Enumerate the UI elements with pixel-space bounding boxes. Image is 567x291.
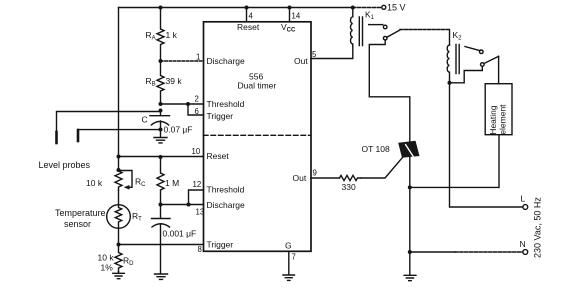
svg-text:RD: RD	[123, 256, 134, 268]
ground below triac	[404, 252, 416, 281]
svg-text:G: G	[285, 241, 292, 251]
wire probe1 to node	[57, 110, 161, 133]
svg-text:15 V: 15 V	[387, 2, 406, 12]
node junction N	[408, 250, 412, 254]
resistor 1M	[157, 157, 164, 205]
svg-text:Heating: Heating	[488, 105, 498, 135]
wire pin6 trigger bracket	[188, 104, 204, 115]
node junction reset left	[117, 155, 121, 159]
svg-text:0.07 μF: 0.07 μF	[164, 125, 193, 135]
node junction K1 coil top	[351, 6, 355, 10]
wire K2 blade to heater	[498, 56, 500, 83]
wire heater bottom to triac node	[410, 135, 499, 188]
level probe 2	[77, 130, 80, 141]
svg-text:Discharge: Discharge	[207, 56, 246, 66]
ground below pin7	[283, 275, 295, 280]
node junction threshold	[159, 102, 163, 106]
svg-text:9: 9	[313, 169, 317, 178]
svg-text:4: 4	[249, 12, 254, 21]
svg-text:1 M: 1 M	[165, 178, 179, 188]
wire out pin5	[311, 46, 353, 59]
level probe 1	[55, 132, 58, 143]
svg-text:RC: RC	[135, 177, 146, 189]
svg-text:element: element	[497, 104, 507, 135]
thermistor RT zigzag	[115, 190, 121, 228]
capacitor C curved plate	[151, 121, 168, 130]
node junction pin4	[245, 6, 249, 10]
terminal L	[523, 205, 528, 210]
triac OT108 body	[398, 141, 419, 158]
svg-text:10 k: 10 k	[86, 178, 103, 188]
wire pin2 threshold	[161, 103, 204, 105]
capacitor 0.001uF curved plate	[152, 224, 170, 274]
svg-text:N: N	[520, 239, 526, 249]
svg-text:0.001 μF: 0.001 μF	[163, 229, 197, 239]
wire pin12 threshold bracket	[189, 190, 204, 205]
wire K1 common down to triac	[369, 40, 410, 141]
wire K2 node down to L	[450, 83, 523, 207]
svg-text:sensor: sensor	[64, 219, 91, 229]
relay K2 lower contact	[481, 63, 485, 67]
svg-text:OT 108: OT 108	[362, 144, 390, 154]
wire K2 common to coil bottom node	[450, 67, 483, 83]
relay K2 upper contact	[465, 47, 480, 51]
svg-text:12: 12	[193, 180, 202, 189]
svg-text:330: 330	[342, 182, 356, 192]
node junction pin14	[288, 6, 292, 10]
node junction cap bottom	[159, 128, 163, 132]
wire reset pin10	[119, 156, 204, 158]
relay K2 core	[456, 45, 459, 74]
svg-text:RT: RT	[132, 211, 142, 223]
svg-text:6: 6	[195, 107, 199, 116]
ground below 0.001uF	[155, 274, 168, 279]
pin7 stub	[288, 251, 290, 274]
svg-text:Discharge: Discharge	[207, 200, 246, 210]
svg-text:10: 10	[192, 147, 201, 156]
pin14 stub	[289, 8, 291, 22]
svg-text:Trigger: Trigger	[207, 111, 234, 121]
relay K1 coil	[351, 8, 353, 46]
wire K1 to K2 (dashed)	[400, 29, 450, 31]
relay K1 core	[359, 17, 362, 46]
resistor RB 39k	[157, 61, 164, 104]
svg-text:Out: Out	[294, 56, 308, 66]
svg-text:Trigger: Trigger	[207, 240, 234, 250]
node junction trigger left	[117, 243, 121, 247]
svg-text:Level probes: Level probes	[39, 160, 91, 170]
node junction probe1	[159, 109, 163, 113]
svg-text:230 Vac, 50 Hz: 230 Vac, 50 Hz	[533, 197, 543, 258]
label Heating element (vertical)	[488, 104, 508, 135]
svg-text:14: 14	[292, 12, 301, 21]
wire triac to bottom node	[409, 158, 411, 253]
wire pin1 discharge (dashed)	[161, 60, 204, 62]
svg-text:VCC: VCC	[281, 22, 296, 34]
capacitor C 0.07uF top plate	[150, 111, 170, 116]
wire trigger pin8	[119, 228, 204, 244]
ground below C	[154, 130, 167, 143]
svg-text:Reset: Reset	[237, 22, 260, 32]
relay K1 blade	[387, 30, 400, 37]
heating element box	[485, 84, 512, 135]
relay K1 lower contact	[383, 36, 387, 40]
relay K2 blade	[484, 56, 499, 63]
wire left vertical column	[118, 8, 120, 158]
thermistor RT circle	[107, 205, 131, 229]
pin4 stub	[246, 8, 248, 22]
svg-text:Reset: Reset	[207, 151, 230, 161]
wire pin13 discharge	[161, 204, 204, 206]
node junction triac bottom	[408, 185, 412, 189]
svg-text:39 k: 39 k	[166, 76, 183, 86]
node junction pin1	[159, 59, 163, 63]
resistor RD 10k 1%	[115, 245, 122, 272]
svg-text:1 k: 1 k	[166, 30, 178, 40]
svg-text:Temperature: Temperature	[55, 208, 106, 218]
IC divider dashed	[204, 134, 311, 136]
node junction pin12 tap	[187, 203, 191, 207]
svg-text:13: 13	[196, 208, 205, 217]
terminal N	[523, 250, 528, 255]
IC 556 box	[204, 22, 312, 252]
potentiometer RC 10k	[115, 157, 122, 191]
resistor RA 1k	[157, 8, 164, 62]
wire probe2 to cap bottom	[78, 129, 161, 131]
wire out pin9	[311, 177, 340, 179]
wire N line	[410, 251, 455, 253]
svg-text:Threshold: Threshold	[207, 99, 245, 109]
resistor 330	[340, 175, 362, 180]
svg-text:Threshold: Threshold	[207, 185, 245, 195]
svg-text:K2: K2	[453, 30, 463, 42]
node junction pot top	[117, 168, 121, 172]
potentiometer RC wiper	[119, 171, 133, 188]
terminal 15V circle	[382, 5, 386, 9]
node junction RA top	[159, 6, 163, 10]
svg-text:Dual timer: Dual timer	[238, 81, 277, 91]
relay K1 upper contact	[369, 24, 383, 26]
svg-text:K1: K1	[365, 10, 375, 22]
svg-text:1: 1	[196, 53, 200, 62]
node junction 1M bottom	[159, 203, 163, 207]
node junction trigger tap	[186, 102, 190, 106]
ground below RD	[113, 272, 125, 279]
svg-text:C: C	[142, 115, 148, 125]
svg-text:7: 7	[292, 253, 296, 262]
wire K2 coil feed	[449, 30, 451, 46]
svg-text:2: 2	[195, 95, 199, 104]
capacitor 0.001uF top plate	[152, 205, 171, 219]
svg-text:8: 8	[198, 245, 202, 254]
node junction K2 bottom	[448, 81, 452, 85]
svg-text:RB: RB	[146, 76, 156, 88]
svg-text:5: 5	[312, 50, 317, 59]
svg-text:Out: Out	[293, 173, 307, 183]
svg-text:1%: 1%	[101, 263, 114, 273]
svg-text:L: L	[521, 194, 526, 204]
wire top supply rail	[119, 7, 353, 9]
svg-text:10 k: 10 k	[98, 253, 115, 263]
node junction reset 1M	[159, 155, 163, 159]
wire 330 to triac gate	[361, 158, 403, 179]
svg-text:RA: RA	[146, 30, 156, 42]
relay K2 coil	[447, 45, 449, 83]
